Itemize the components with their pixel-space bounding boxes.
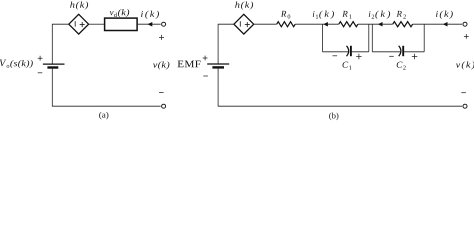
terminal - (b) open circle xyxy=(463,104,467,108)
label V_o(s(k)) (a) xyxy=(0,60,33,68)
label - at terminal (b) xyxy=(461,92,466,94)
battery EMF short plate xyxy=(212,66,224,68)
capacitor C2 curved plate xyxy=(399,46,401,56)
polarity bar inside source (a) xyxy=(74,21,76,26)
label i(k) (a) xyxy=(141,11,159,19)
resistor R1 zigzag xyxy=(339,22,358,27)
wire: (a) left rail lower + bottom wire xyxy=(52,68,160,107)
controlled voltage source h(k) (b) diamond xyxy=(234,14,254,34)
battery V_o (a) short plate xyxy=(47,66,58,68)
terminal - (a) open circle xyxy=(162,104,166,108)
wire: C2 branch bottom right xyxy=(404,51,424,53)
label h(k) (a) xyxy=(70,1,88,9)
label - of C2 xyxy=(389,55,394,57)
label v(k) (b) xyxy=(456,61,474,69)
label - of C1 xyxy=(333,55,338,57)
wire: C1 branch right drop xyxy=(368,24,370,52)
label - of battery EMF xyxy=(203,75,208,77)
label C2 xyxy=(397,62,406,70)
resistor R2 zigzag xyxy=(393,22,413,27)
wire: C1 branch bottom left xyxy=(323,51,349,53)
current arrow i1(k) xyxy=(323,22,328,27)
label i_2(k) xyxy=(369,11,390,19)
battery V_o (a) long plate xyxy=(43,63,65,65)
wire: C2 branch bottom left xyxy=(372,51,400,53)
label + of C2 xyxy=(412,54,417,59)
polarity plus inside source (a) xyxy=(80,22,85,27)
wire: C2 branch left drop xyxy=(371,24,373,52)
label - at terminal (a) xyxy=(159,92,164,94)
terminal + (b) open circle xyxy=(463,22,467,26)
caption (a) xyxy=(99,112,108,120)
label C1 xyxy=(343,62,352,70)
wire: (b) source to R0 xyxy=(254,23,277,25)
polarity bar inside source (b) xyxy=(239,21,241,26)
label h(k) (b) xyxy=(235,1,253,9)
label + at terminal (b) xyxy=(464,34,469,39)
label v_d(k) (a) xyxy=(110,9,129,17)
label v(k) (a) xyxy=(153,61,169,69)
controlled voltage source h(k) (a) diamond xyxy=(69,14,89,34)
capacitor C1 straight plate xyxy=(350,46,352,56)
label + of C1 xyxy=(356,54,361,59)
resistor R0 zigzag xyxy=(277,22,295,27)
capacitor C1 curved plate xyxy=(347,46,349,56)
polarity plus inside source (b) xyxy=(245,22,250,27)
current arrow i(k) (b) xyxy=(443,22,448,27)
battery EMF long plate xyxy=(207,63,229,65)
label EMF xyxy=(178,61,201,68)
label - of battery (a) xyxy=(38,72,43,74)
label i(k) (b) xyxy=(436,11,453,19)
caption (b) xyxy=(329,113,338,121)
label + at terminal (a) xyxy=(159,35,164,40)
wire: (b) R0 to R1 with node A xyxy=(295,23,339,25)
label R2 xyxy=(396,11,405,19)
label + of battery EMF xyxy=(203,56,208,61)
current arrow i(k) (a) xyxy=(147,22,152,27)
current arrow i2(k) xyxy=(378,22,383,27)
label R1 xyxy=(342,11,351,19)
wire: (b) left rail lower + bottom wire xyxy=(218,67,462,106)
wire: (a) left rail + top-left segment xyxy=(52,24,69,64)
wire: (a) between source and resistor box xyxy=(89,23,105,25)
terminal + (a) open circle xyxy=(162,22,166,26)
label + of battery (a) xyxy=(38,56,43,61)
wire: C1 branch left drop xyxy=(322,24,324,52)
wire: (b) R1 to R2 with nodes xyxy=(358,23,393,25)
capacitor C2 straight plate xyxy=(402,46,404,56)
label R0 xyxy=(281,11,290,19)
resistor box v_d(k) (a) xyxy=(105,18,138,30)
wire: C2 branch right drop xyxy=(423,24,425,52)
wire: (a) from box to + terminal xyxy=(137,23,160,25)
label i_1(k) xyxy=(313,11,334,19)
wire: (b) left rail + top-left segment xyxy=(218,24,234,64)
wire: C1 branch bottom right xyxy=(352,51,369,53)
wire: (b) R2 to + terminal xyxy=(413,23,463,25)
